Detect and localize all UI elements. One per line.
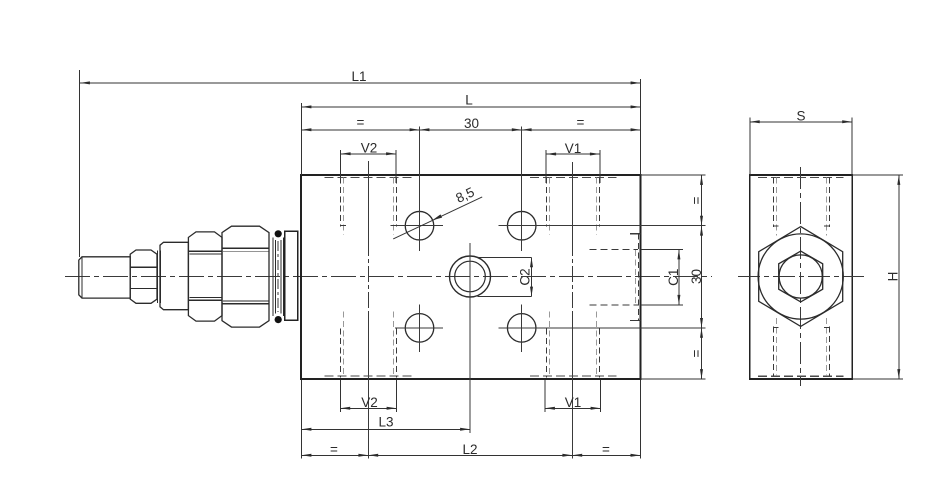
side view bottom slot hidden bbox=[758, 318, 844, 376]
svg-text:=: = bbox=[602, 442, 610, 457]
cartridge flange plate bbox=[285, 231, 298, 320]
svg-text:S: S bbox=[796, 109, 805, 124]
slot V2 bottom hidden bbox=[325, 312, 414, 378]
o-ring centerline bbox=[277, 241, 279, 312]
side port hidden right edge bbox=[590, 234, 641, 321]
svg-text:L3: L3 bbox=[378, 414, 393, 429]
dimension L1 bbox=[80, 70, 641, 257]
o-ring bottom bbox=[275, 316, 282, 323]
cartridge stem bbox=[79, 257, 130, 298]
dimension V1 top bbox=[546, 150, 600, 183]
dimension V1 bottom bbox=[545, 380, 601, 412]
side view vertical centerline bbox=[800, 167, 802, 386]
svg-text:V1: V1 bbox=[565, 395, 582, 410]
svg-text:C2: C2 bbox=[518, 268, 533, 285]
main horizontal centerline bbox=[65, 276, 712, 278]
svg-text:=: = bbox=[689, 196, 704, 204]
dimension V2 top bbox=[341, 150, 396, 183]
hole bolt bottom-right bbox=[507, 314, 536, 343]
o-ring top bbox=[275, 230, 282, 237]
svg-text:V2: V2 bbox=[361, 141, 378, 156]
port hole C2 center bbox=[450, 256, 491, 297]
cartridge locknut hex bbox=[130, 250, 157, 303]
o-ring washers column bbox=[273, 238, 283, 317]
hole bolt bottom-left bbox=[405, 314, 434, 343]
slot V1 bottom hidden bbox=[530, 312, 617, 378]
slot V1 top hidden bbox=[530, 177, 617, 234]
svg-text:30: 30 bbox=[689, 269, 704, 284]
side view block bbox=[750, 175, 852, 379]
block front view bbox=[301, 175, 641, 379]
dimension C2 bbox=[478, 257, 532, 296]
cartridge washer bbox=[158, 251, 161, 304]
cartridge hex nut large bbox=[222, 226, 269, 327]
dimension L3 bbox=[302, 380, 471, 459]
slot V1 centerline bbox=[571, 162, 573, 240]
plug turned circle bbox=[758, 234, 843, 319]
svg-text:=: = bbox=[330, 442, 338, 457]
cartridge sleeve cylinder bbox=[160, 242, 188, 309]
hole bolt top-left bbox=[405, 211, 434, 240]
cartridge hex nut mid bbox=[188, 232, 222, 321]
hole bolt top-right bbox=[507, 211, 536, 240]
dimension H bbox=[852, 175, 903, 379]
svg-text:=: = bbox=[577, 115, 585, 130]
dimension C1 bbox=[641, 250, 684, 305]
side view top slot hidden bbox=[758, 177, 844, 235]
dimension L bbox=[302, 79, 641, 175]
dimension row = / L2 / = bottom bbox=[302, 380, 641, 459]
dimension = / 30 / = right bbox=[641, 175, 706, 379]
svg-text:30: 30 bbox=[464, 116, 479, 131]
dimension S bbox=[750, 118, 852, 176]
svg-text:=: = bbox=[357, 115, 365, 130]
plug socket circle bbox=[779, 255, 822, 298]
side view horizontal centerline bbox=[738, 276, 864, 278]
svg-text:L2: L2 bbox=[462, 442, 477, 457]
svg-text:L: L bbox=[465, 92, 473, 107]
svg-text:H: H bbox=[886, 272, 901, 282]
slot V2 top hidden bbox=[325, 177, 414, 234]
svg-text:V1: V1 bbox=[565, 141, 582, 156]
svg-text:L1: L1 bbox=[351, 69, 366, 84]
leader 8,5 bbox=[393, 197, 482, 239]
dimension V2 bottom bbox=[340, 380, 396, 412]
plug hex outer bbox=[759, 227, 843, 327]
dimension row = / 30 / = top bbox=[302, 129, 641, 131]
svg-text:C1: C1 bbox=[666, 269, 681, 286]
slot V2 centerline bbox=[367, 161, 369, 240]
plug hex socket bbox=[779, 251, 823, 302]
svg-text:=: = bbox=[689, 349, 704, 357]
svg-text:V2: V2 bbox=[361, 395, 378, 410]
